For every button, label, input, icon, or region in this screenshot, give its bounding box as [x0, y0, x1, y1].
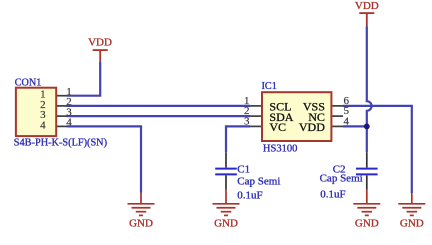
svg-text:4: 4 — [344, 115, 350, 127]
svg-text:S4B-PH-K-S(LF)(SN): S4B-PH-K-S(LF)(SN) — [14, 138, 107, 149]
svg-text:GND: GND — [400, 217, 424, 229]
svg-text:CON1: CON1 — [15, 77, 42, 88]
svg-text:IC1: IC1 — [262, 81, 277, 92]
svg-text:C1: C1 — [237, 163, 250, 175]
svg-text:GND: GND — [129, 217, 153, 229]
svg-text:VDD: VDD — [299, 120, 325, 134]
svg-text:GND: GND — [214, 217, 238, 229]
svg-text:Cap Semi: Cap Semi — [320, 173, 363, 185]
svg-text:0.1uF: 0.1uF — [320, 189, 345, 201]
svg-text:4: 4 — [66, 117, 72, 129]
svg-text:3: 3 — [244, 115, 250, 127]
svg-text:0.1uF: 0.1uF — [237, 190, 262, 202]
svg-text:HS3100: HS3100 — [263, 143, 297, 154]
svg-text:Cap Semi: Cap Semi — [237, 176, 280, 188]
svg-text:VC: VC — [269, 120, 286, 134]
svg-text:4: 4 — [40, 119, 46, 131]
svg-text:GND: GND — [355, 217, 379, 229]
svg-text:VDD: VDD — [355, 0, 379, 12]
svg-text:VDD: VDD — [88, 37, 112, 49]
